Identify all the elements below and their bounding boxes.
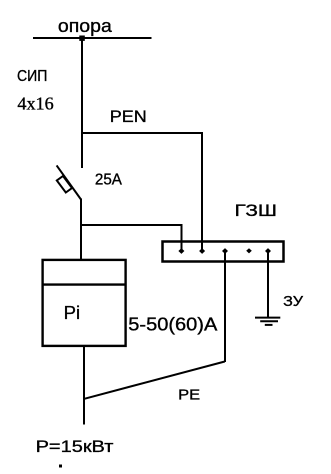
wire: overhead line at pole — [33, 37, 152, 39]
svg-text:ЗУ: ЗУ — [283, 294, 304, 310]
svg-text:СИП: СИП — [17, 68, 47, 85]
busbar ГЗШ body — [163, 242, 284, 262]
wire: earth lead from busbar — [267, 251, 269, 317]
node: tap junction on overhead line — [79, 36, 85, 41]
node: bus terminal 2 — [199, 248, 205, 254]
svg-text:ГЗШ: ГЗШ — [235, 201, 278, 220]
meter divider line — [42, 283, 126, 285]
svg-text:Р=15кВт: Р=15кВт — [36, 437, 114, 456]
node: bus terminal 3 — [222, 248, 228, 254]
svg-text:опора: опора — [58, 16, 113, 36]
node: bus terminal 5 — [265, 248, 271, 254]
circuit breaker body rectangle — [57, 176, 72, 193]
svg-text:PEN: PEN — [110, 107, 147, 126]
circuit breaker lever — [57, 165, 81, 199]
wire: PEN branch horizontal — [81, 132, 203, 134]
wire: PE diagonal to meter output — [84, 362, 225, 399]
wire: branch to busbar vertical — [181, 224, 183, 250]
node: bus terminal 4 — [246, 248, 252, 253]
ground symbol bar 1 — [255, 317, 280, 319]
svg-text:Pi: Pi — [64, 303, 81, 323]
svg-text:25А: 25А — [95, 171, 123, 188]
svg-text:4x16: 4x16 — [17, 94, 53, 114]
ground symbol bar 2 — [260, 320, 278, 322]
stray ink dot — [59, 465, 62, 468]
wire: meter output down — [83, 346, 85, 425]
node: bus terminal 1 — [178, 248, 184, 254]
wire: service drop down from pole — [81, 38, 83, 168]
meter outer box — [43, 260, 126, 346]
wire: PE from busbar down — [224, 251, 226, 362]
ground symbol bar 3 — [265, 324, 273, 326]
wire: from breaker down to meter — [80, 199, 82, 261]
svg-text:PE: PE — [178, 386, 200, 403]
svg-text:5-50(60)А: 5-50(60)А — [128, 314, 218, 335]
wire: PEN branch vertical down to busbar — [201, 132, 203, 250]
wire: branch to busbar horizontal — [81, 224, 183, 226]
